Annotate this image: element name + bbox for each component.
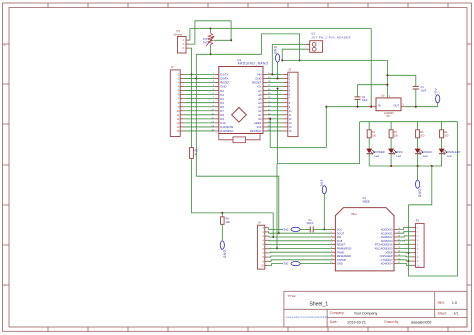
ground flag below LED bus	[416, 180, 422, 198]
U3 right pin 18 AD2/DIO2	[381, 235, 401, 239]
svg-text:Date:: Date:	[330, 320, 338, 324]
node POT top junction	[209, 28, 211, 30]
node bus to P1 link junction	[431, 165, 433, 167]
wire rail to R2	[390, 122, 392, 130]
node DOUT junction	[278, 232, 280, 234]
resistor R1 100	[367, 130, 376, 138]
node ground run junction	[281, 59, 283, 61]
wire U1 right row 4 to J3	[267, 86, 283, 88]
svg-text:XBee: XBee	[351, 213, 358, 216]
wire J4 pin4 to XBee	[268, 239, 332, 242]
svg-text:PWM1: PWM1	[337, 250, 345, 254]
U1 left pin 4 GND	[213, 85, 227, 89]
wire LED ASSOC cathode drop	[417, 154, 419, 166]
svg-text:100: 100	[394, 134, 399, 137]
wire J2 pin3 to U1	[184, 81, 215, 83]
LED ON/SLEEP Led	[439, 149, 461, 158]
potentiometer POT	[203, 32, 214, 46]
node ground riser junctions	[386, 84, 388, 86]
svg-text:J3: J3	[288, 68, 291, 72]
wire XBee right row 5 to P1	[398, 243, 412, 245]
wire J4 pin9 to XBee	[268, 260, 332, 262]
node +5V row junction	[276, 87, 278, 89]
wire J4 pin6 to XBee	[268, 247, 332, 249]
connector P1 10-pin	[411, 219, 424, 268]
node VCC row junction	[323, 228, 325, 230]
U3 right pin 11 AD4/DIO4	[381, 262, 401, 266]
U1 right pin 28 RESET	[252, 81, 271, 85]
capacitor C1 100nF	[306, 219, 314, 233]
wire J2 pin1 to U1	[184, 73, 215, 75]
svg-text:POT: POT	[203, 40, 209, 44]
resistor R2 100	[389, 130, 398, 138]
U1 left pin 15 D12/MISO	[211, 129, 234, 133]
node regulator input stub junction	[370, 106, 372, 108]
wire ground rail to C3 top	[387, 75, 415, 86]
wire U1 right row 14 to J3	[267, 126, 283, 128]
svg-text:C2: C2	[362, 95, 366, 99]
svg-text:100: 100	[372, 134, 377, 137]
wire POT bottom horizontal ground run	[196, 34, 299, 61]
svg-text:J4: J4	[258, 221, 261, 225]
wire U1 right row 15 to J3	[267, 130, 283, 132]
svg-text:GND: GND	[418, 189, 422, 198]
node POT bottom junction	[209, 53, 211, 55]
voltage regulator U5 LM2940	[370, 94, 404, 119]
ground flag below R6	[220, 241, 226, 259]
U3 left pin 1 VCC	[331, 228, 342, 232]
wire XBee GND row with GND flag	[268, 264, 283, 266]
wire second riser to XBee PWM0 row	[276, 164, 278, 249]
U3 right pin 13 ON/SLEEP	[380, 254, 401, 258]
wire U1 right row 5 to J3	[267, 90, 283, 92]
node PWM0 row junction	[276, 247, 278, 249]
svg-text:ASSOC: ASSOC	[423, 150, 432, 154]
svg-text:AD3/DIO3: AD3/DIO3	[381, 239, 393, 243]
U1 right pin 17 3V3	[257, 125, 272, 129]
power net flag +5V at regulator output	[434, 87, 440, 106]
power net flag 3V3 for XBee VCC	[320, 179, 326, 194]
wire J4 pin2 to XBee	[268, 232, 332, 233]
connector U2 JST-PH 2-pin header	[306, 32, 351, 53]
svg-text:DO8: DO8	[337, 239, 343, 243]
wire A1 riser to regulator input (wire A)	[270, 107, 326, 148]
svg-text:RTS/AD6/DIO6: RTS/AD6/DIO6	[375, 243, 393, 247]
wire U1 right row 11 to J3	[267, 114, 283, 116]
node LED2 bus junction	[390, 165, 392, 167]
LED ASSOC Led	[415, 149, 433, 158]
wire J2 pin7 to U1	[184, 98, 215, 100]
wire LED POWER cathode drop	[368, 154, 370, 166]
svg-text:U2: U2	[311, 32, 315, 36]
wire LED ON/SLEEP cathode drop	[441, 154, 443, 166]
wire C2 top to ground riser	[358, 84, 388, 86]
node v1 on D1/TX row	[190, 73, 192, 75]
wire J2 pin11 to U1	[184, 114, 215, 116]
svg-text:JST-PH_2-PIN_HEADER: JST-PH_2-PIN_HEADER	[311, 35, 351, 39]
wire U1 right row 13 to J3	[267, 122, 283, 124]
svg-text:100nF: 100nF	[306, 222, 314, 225]
U1 right pin 29 GND	[255, 77, 271, 81]
U3 left pin 8 RESERVED	[331, 254, 351, 258]
wire J2 pin5 to U1	[184, 90, 215, 92]
wire POT bottom lead	[210, 46, 212, 55]
svg-text:STROB: STROB	[337, 258, 346, 262]
IC U3 XBEE body	[335, 196, 394, 271]
wire bus down-link toward P1 riser	[409, 166, 432, 205]
svg-text:Sensor: Sensor	[174, 33, 183, 37]
wire U1 right row 1 to J3	[267, 73, 283, 75]
op-amp U1 ARDUINO_NANO body	[219, 58, 269, 134]
svg-text:D13/SCK: D13/SCK	[250, 129, 262, 133]
wire U1 right row 2 to J3	[267, 77, 283, 79]
U1 left pin 1 D1/TX	[213, 73, 229, 77]
svg-text:easyeda.com/alasalem009: easyeda.com/alasalem009	[286, 315, 328, 319]
wire LED RSSI cathode drop	[390, 154, 392, 166]
wire XBee right row 7 to P1	[398, 251, 412, 254]
wire XBee right row 6 to P1	[398, 247, 412, 249]
wire U1 right row 12 to J3	[267, 118, 283, 120]
U3 right pin 14 VREF	[386, 250, 401, 254]
U1 left pin 11 D8	[212, 113, 225, 117]
ground net flag near U2	[274, 45, 280, 62]
node v2 on D0/RX row	[195, 77, 197, 79]
wire J4 pin3 to XBee	[268, 235, 332, 238]
svg-text:IN: IN	[378, 104, 381, 108]
wire v-riser into XBee DIN row	[272, 213, 274, 237]
U1 right pin 26 A7	[258, 89, 271, 93]
wire LED supply rail	[360, 121, 458, 123]
wire rail to R4	[441, 122, 443, 130]
wire battery+ top rail to regulator input	[211, 29, 372, 107]
U1 left pin 12 D9	[211, 117, 224, 121]
wire POT top lead	[210, 29, 212, 33]
LED RSSI Led	[388, 149, 403, 158]
wire 3V3 flag to VCC row	[323, 194, 325, 230]
wire J2 pin13 to U1	[184, 122, 215, 124]
U3 left pin 4 DO8	[331, 239, 343, 243]
U1 left pin 3 RESET	[213, 81, 230, 85]
U3 left pin 2 DOUT	[331, 231, 344, 235]
U3 left pin 7 PWM1	[331, 250, 345, 254]
svg-text:Drawn By:: Drawn By:	[384, 320, 399, 324]
wire R2 to LED	[390, 138, 392, 149]
U3 right pin 12 CTS/DIO7	[381, 258, 401, 262]
svg-text:alasalem009: alasalem009	[411, 320, 431, 324]
svg-text:AD2/DIO2: AD2/DIO2	[381, 235, 393, 239]
svg-text:ON/SLEEP: ON/SLEEP	[447, 150, 461, 154]
U3 right pin 20 AD0/DIO0	[381, 228, 401, 232]
node VIN junction	[271, 73, 273, 75]
connector P3 Sensor	[174, 29, 190, 53]
U3 right pin 15 ASC/AD5/DIO5	[375, 247, 401, 251]
U1 right pin 30 VIN	[257, 73, 271, 77]
U3 left pin 5 RESET	[331, 243, 346, 247]
svg-text:10uF: 10uF	[362, 98, 368, 102]
wire U1 right row 8 to J3	[267, 102, 283, 104]
wire U2 pin2 to ground run	[282, 49, 306, 60]
U1 right pin 24 A5	[258, 97, 271, 101]
wire J2 pin6 to U1	[184, 94, 215, 96]
U1 logo diamond	[232, 108, 247, 123]
wire U1 right row 6 to J3	[267, 94, 283, 96]
svg-text:RESET: RESET	[337, 243, 346, 247]
node GND row junction	[277, 77, 279, 79]
wire J4 pin8 to XBee	[268, 256, 332, 257]
wire XBee right row 9 to P1	[398, 260, 412, 261]
svg-text:OUT: OUT	[393, 104, 399, 108]
U1 left pin 2 D0/RX	[213, 77, 229, 81]
wire J4 pin7 to XBee	[268, 251, 332, 254]
component below U1 (module footprint)	[219, 134, 260, 143]
U3 left pin 9 STROB	[331, 258, 346, 262]
wire XBee VCC row with GND flag and C1	[268, 228, 283, 230]
svg-text:XBEE: XBEE	[362, 200, 370, 204]
svg-text:Led: Led	[447, 154, 452, 158]
wire XBee right row 1 to P1	[398, 228, 412, 230]
wire rail to R3	[417, 122, 419, 130]
svg-text:ARDUINO_NANO: ARDUINO_NANO	[238, 62, 269, 66]
node DIN junction	[272, 236, 274, 238]
resistor R6 10k	[221, 213, 231, 224]
resistor R3 100	[416, 130, 425, 138]
wire R3 to LED	[417, 138, 419, 149]
node P1 riser crossing row8	[407, 252, 409, 254]
U3 right pin 19 AD1/DIO1	[381, 231, 401, 235]
svg-text:POWER: POWER	[375, 150, 385, 154]
svg-text:J2: J2	[171, 65, 174, 69]
U1 right pin 23 A4	[258, 101, 271, 105]
wire J2 pin15 to U1	[184, 130, 215, 132]
svg-text:VCC: VCC	[337, 228, 343, 232]
U1 right pin 21 A2	[258, 109, 271, 113]
svg-text:GND: GND	[283, 228, 289, 232]
wire J2 pin4 to U1	[184, 86, 215, 88]
wire R6 to ground flag	[221, 224, 223, 241]
svg-text:Led: Led	[396, 154, 401, 158]
wire J4 pin5 to XBee	[268, 244, 332, 246]
svg-text:AD0/DIO0: AD0/DIO0	[381, 228, 393, 232]
svg-text:AD4/DIO4: AD4/DIO4	[381, 262, 393, 266]
U3 left pin 6 PWM0/RSSI	[331, 247, 352, 251]
resistor R5 1k	[190, 148, 199, 159]
capacitor C3 10uF	[413, 85, 427, 107]
connector J4 10-pin	[257, 221, 268, 270]
U3 right pin 17 AD3/DIO3	[381, 239, 401, 243]
svg-text:C3: C3	[420, 85, 424, 89]
wire R4 to LED	[441, 138, 443, 149]
U1 right pin 27 +5V	[256, 85, 271, 89]
node P1 riser crossing row10	[407, 260, 409, 262]
svg-text:RSSI: RSSI	[396, 150, 403, 154]
svg-text:GND: GND	[283, 262, 289, 266]
node wiper junction	[230, 39, 232, 41]
wire LED cathode bus	[369, 165, 441, 167]
svg-text:P1: P1	[416, 219, 420, 223]
U1 right pin 18 AREF	[254, 121, 271, 125]
wire C1 to XBee VCC pin	[313, 228, 332, 230]
wire U1 right row 7 to J3	[267, 98, 283, 100]
wire J2 pin2 to U1	[184, 77, 215, 79]
wire rail right end loop to P1	[409, 122, 458, 276]
wire regulator input rail	[326, 106, 370, 108]
node LED3 bus junction	[417, 165, 419, 167]
svg-text:+5V: +5V	[434, 87, 438, 95]
wire +5V riser to LED rail (wire B)	[278, 89, 360, 164]
svg-text:TITLE:: TITLE:	[287, 294, 296, 298]
U1 right pin 25 A6	[258, 93, 271, 97]
node wire A top junction	[325, 106, 327, 108]
wire long ground run to regulator area	[282, 60, 387, 98]
connector J3 15-pin	[283, 68, 298, 137]
resistor R4 100	[440, 130, 449, 138]
wire J2 pin14 to U1	[184, 126, 215, 128]
svg-text:Led: Led	[423, 154, 428, 158]
node A1 row junction	[269, 118, 271, 120]
svg-text:PWM0/RSSI: PWM0/RSSI	[337, 247, 352, 251]
wire J2 pin12 to U1	[184, 118, 215, 120]
wire XBee right row 3 to P1	[398, 236, 412, 237]
wire GND flag to U1 GND row	[277, 62, 279, 78]
svg-text:VREF: VREF	[386, 250, 393, 254]
U1 left pin 5 D2	[213, 89, 225, 93]
svg-text:1/1: 1/1	[454, 312, 459, 316]
svg-text:Led: Led	[375, 154, 380, 158]
svg-text:GND: GND	[274, 45, 278, 54]
wire U1 right row 10 to J3	[267, 110, 283, 112]
svg-text:10uF: 10uF	[420, 88, 426, 92]
wire J2 pin9 to U1	[184, 106, 215, 108]
U1 left pin 9 D6	[213, 105, 225, 109]
svg-text:U5: U5	[381, 94, 385, 98]
wire R1 to LED	[368, 138, 370, 149]
wire J2 pin8 to U1	[184, 102, 215, 104]
title block	[284, 291, 467, 327]
capacitor C2 10uF	[355, 85, 369, 107]
wire U1 right row 3 to J3	[267, 81, 283, 83]
svg-text:100: 100	[420, 134, 425, 137]
wire v2 from ground run down to row2	[195, 54, 197, 176]
svg-text:AD1/DIO1: AD1/DIO1	[381, 231, 393, 235]
wire RX link row	[196, 176, 278, 233]
svg-text:Sheet_1: Sheet_1	[310, 302, 329, 308]
svg-text:ASC/AD5/DIO5: ASC/AD5/DIO5	[375, 247, 393, 251]
node C2 bottom junction	[356, 106, 358, 108]
U3 left pin 3 DIN	[331, 235, 341, 239]
connector J2 15-pin	[170, 65, 183, 136]
svg-text:RESERVED: RESERVED	[337, 254, 351, 258]
svg-text:Company:: Company:	[330, 311, 345, 315]
wire POT wiper to junction	[214, 39, 231, 41]
U1 left pin 7 D4	[213, 97, 225, 101]
LED POWER Led	[366, 149, 385, 158]
svg-text:DOUT: DOUT	[337, 231, 345, 235]
U3 right pin 16 RTS/AD6/DIO6	[375, 243, 401, 247]
wire XBee right row 8 to P1	[398, 255, 412, 258]
svg-text:10k: 10k	[226, 220, 231, 224]
svg-text:Sheet:: Sheet:	[438, 312, 447, 316]
svg-text:3V3: 3V3	[320, 179, 324, 186]
svg-text:2019-03-21: 2019-03-21	[348, 320, 366, 324]
svg-text:ON/SLEEP: ON/SLEEP	[380, 254, 393, 258]
wire P3 pin1 to POT wiper node riser	[190, 29, 211, 40]
wire XBee right row 10 to P1	[398, 264, 412, 266]
svg-text:100: 100	[444, 134, 449, 137]
svg-text:D12/MISO: D12/MISO	[220, 129, 234, 133]
wire U1 right row 9 to J3	[267, 106, 283, 108]
svg-text:GND: GND	[337, 262, 343, 266]
wire P3 pin3 to vertical v1	[190, 48, 192, 148]
wire U2 pin1 to VIN riser	[272, 44, 306, 74]
node C3 junction	[415, 106, 417, 108]
wire XBee right row 2 to P1	[398, 232, 412, 234]
svg-text:1.0: 1.0	[452, 301, 457, 305]
svg-text:DIN: DIN	[337, 235, 342, 239]
svg-text:OK: OK	[386, 114, 390, 118]
wire J2 pin10 to U1	[184, 110, 215, 112]
svg-text:Your Company: Your Company	[354, 311, 378, 315]
U1 right pin 19 A0	[258, 117, 271, 121]
U1 left pin 13 D10	[211, 121, 226, 125]
U1 left pin 8 D5	[213, 101, 225, 105]
node R6 tap	[221, 212, 223, 214]
U1 left pin 6 D3	[213, 93, 225, 97]
U3 left pin 10 GND	[330, 262, 343, 266]
wire XBee right row 4 to P1	[398, 239, 412, 242]
svg-text:REV:: REV:	[438, 301, 445, 305]
svg-text:GND: GND	[223, 250, 227, 259]
wire bus to ground flag 2	[417, 166, 419, 180]
wire regulator output rail	[405, 106, 438, 108]
svg-text:CTS/DIO7: CTS/DIO7	[381, 258, 394, 262]
wire below R5 to TX link row	[192, 158, 274, 213]
wire rail to R1	[368, 122, 370, 130]
U1 left pin 10 D7	[211, 109, 224, 113]
U1 right pin 22 A3	[258, 105, 271, 109]
node ground run mid junction	[299, 59, 301, 61]
U1 right pin 20 A1	[258, 113, 271, 117]
U1 left pin 14 D11/MOSI	[211, 125, 233, 129]
U1 right pin 16 D13/SCK	[250, 129, 271, 133]
wire P3 pin2 riser to wiper link	[190, 21, 232, 44]
